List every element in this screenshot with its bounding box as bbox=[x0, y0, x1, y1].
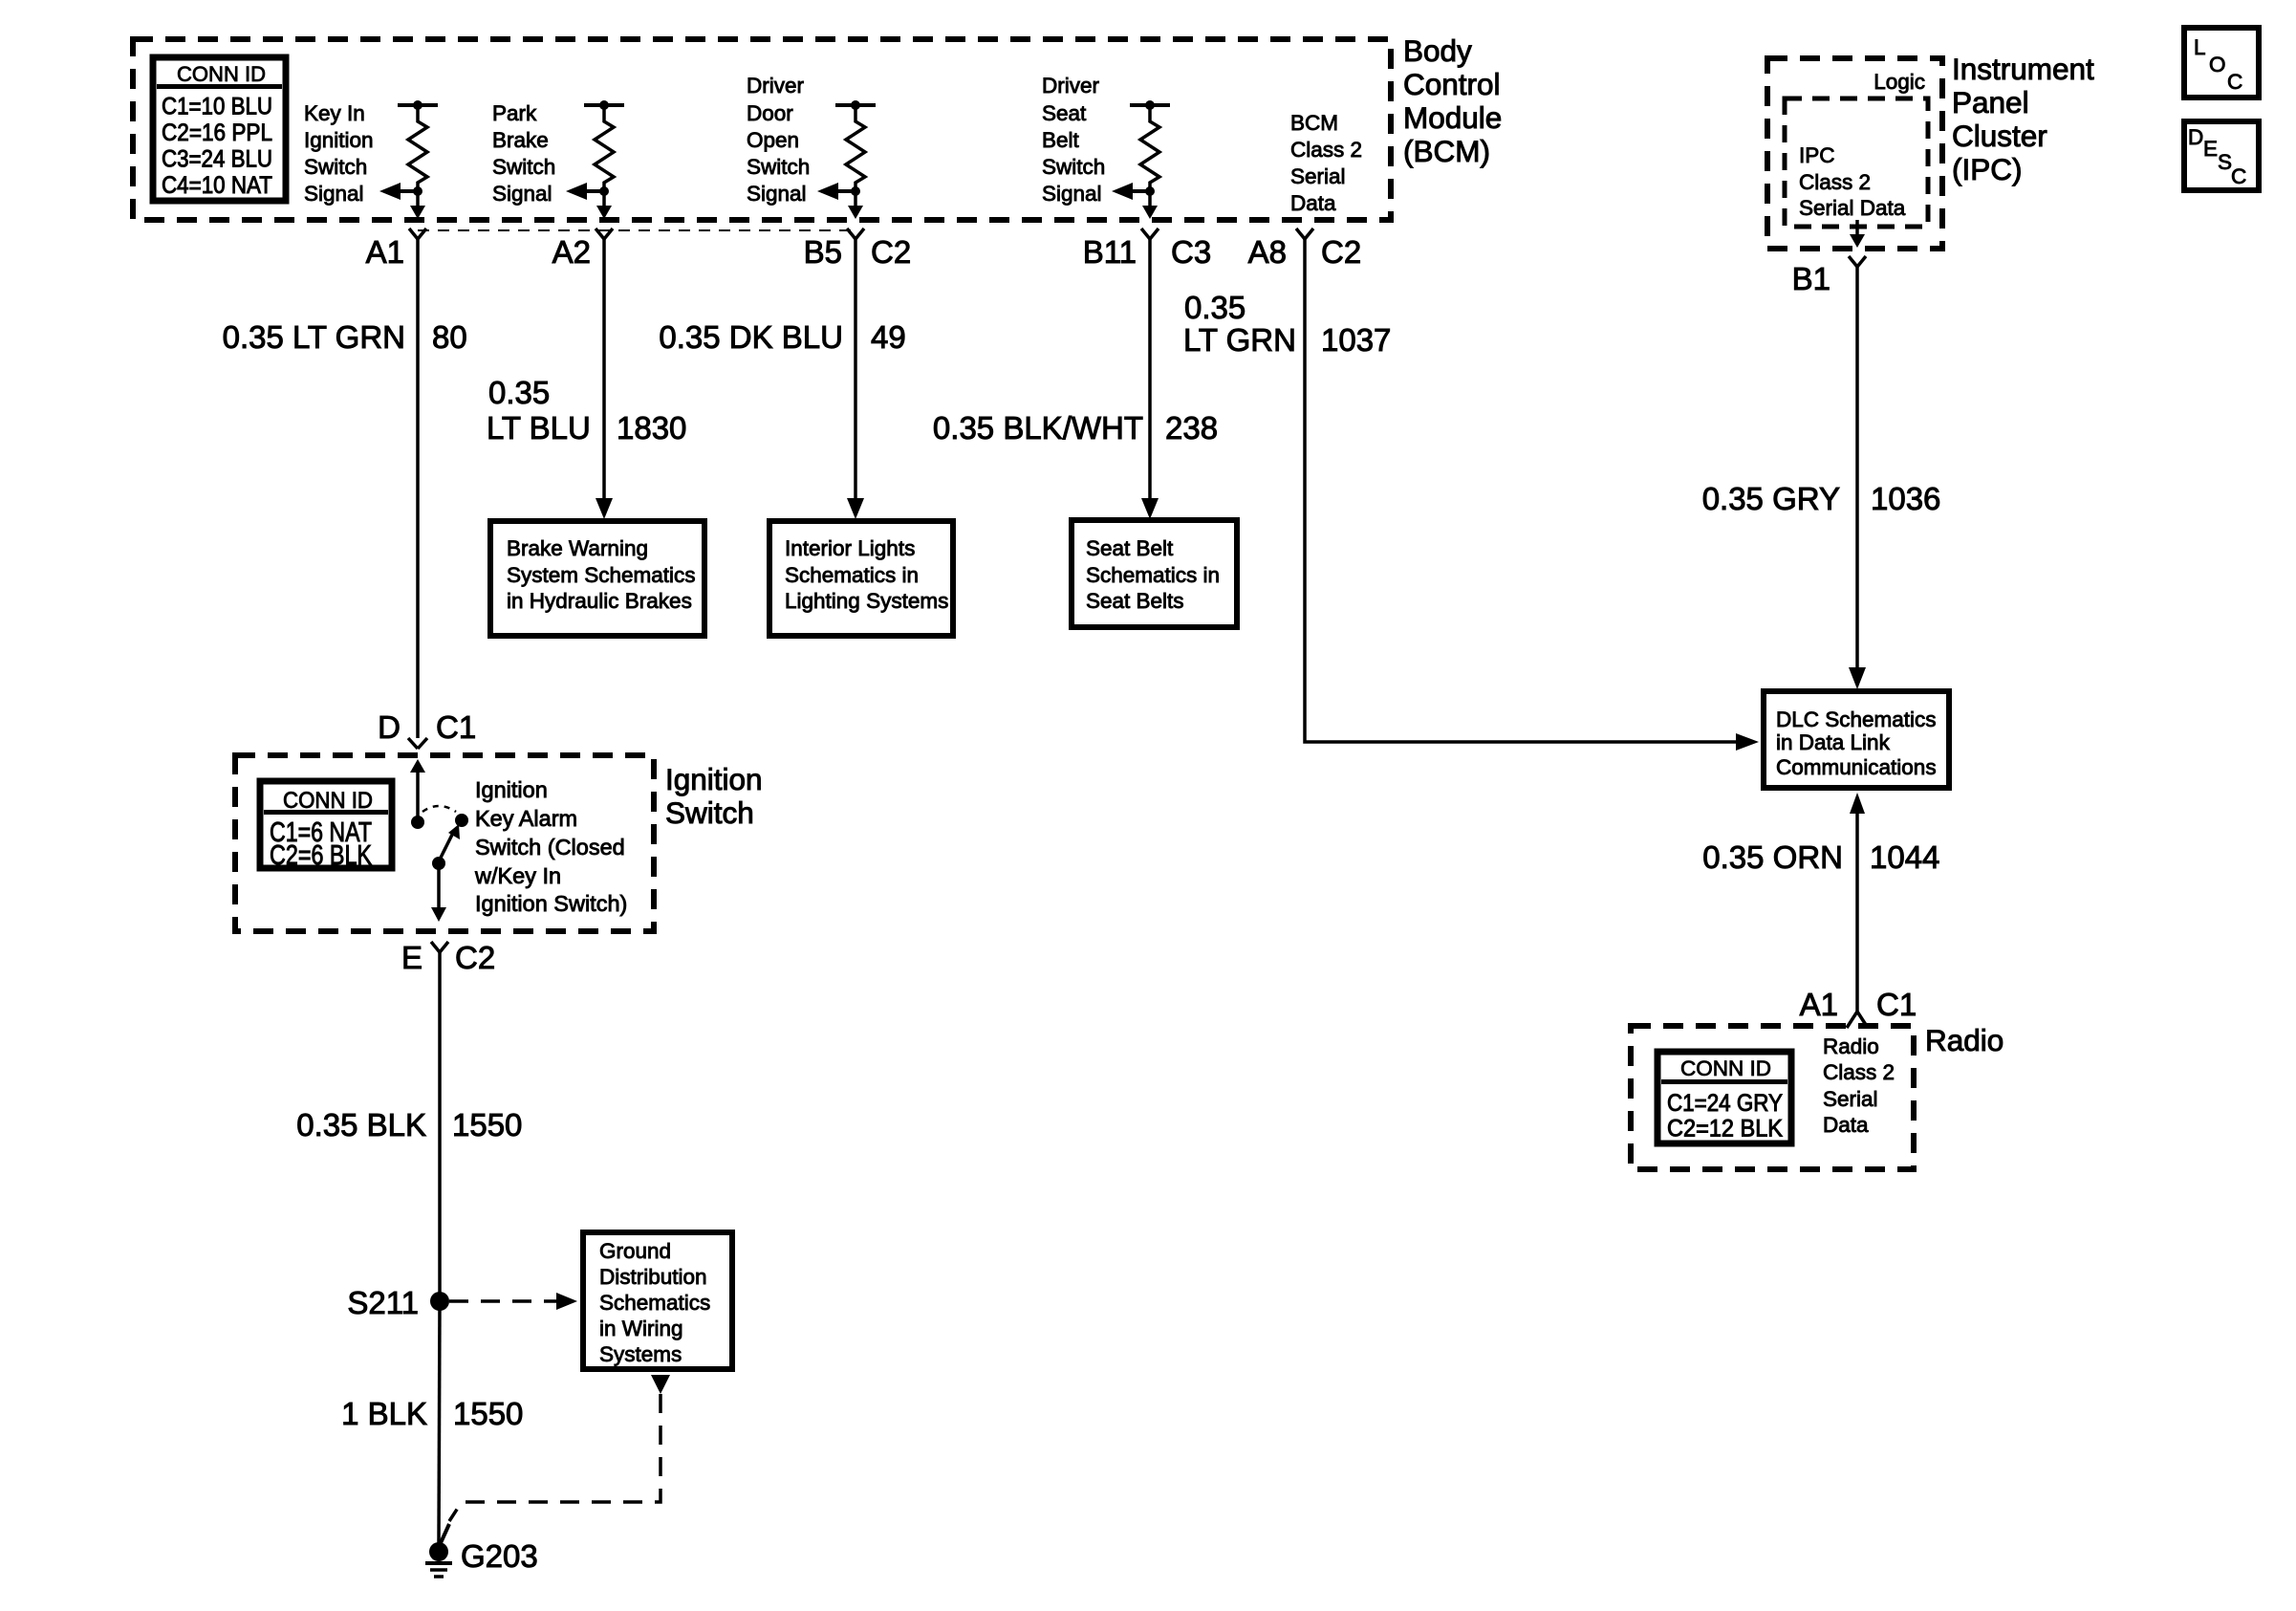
IPC Class 2 Serial Data label bbox=[1799, 143, 1906, 220]
svg-text:Park: Park bbox=[492, 101, 537, 125]
svg-text:CONN ID: CONN ID bbox=[1680, 1056, 1771, 1080]
connector A8 / C2 (BCM pin) bbox=[1248, 229, 1362, 270]
svg-text:Brake Warning: Brake Warning bbox=[507, 536, 648, 560]
wire label 0.35 BLK/WHT 238 bbox=[933, 410, 1218, 446]
svg-text:E: E bbox=[2203, 137, 2218, 161]
svg-text:A1: A1 bbox=[366, 234, 404, 270]
wire A2 to brake warning box bbox=[596, 239, 613, 519]
svg-text:Control: Control bbox=[1403, 67, 1501, 101]
svg-text:Lighting Systems: Lighting Systems bbox=[785, 589, 948, 613]
svg-text:Logic: Logic bbox=[1874, 70, 1925, 94]
svg-text:Systems: Systems bbox=[599, 1342, 682, 1366]
svg-text:Data: Data bbox=[1823, 1113, 1869, 1137]
svg-text:0.35: 0.35 bbox=[488, 375, 550, 410]
svg-text:Panel: Panel bbox=[1952, 85, 2029, 120]
svg-text:Belt: Belt bbox=[1042, 128, 1080, 152]
svg-text:CONN ID: CONN ID bbox=[283, 788, 373, 814]
resistor driver seat belt switch (BCM internal) bbox=[1112, 100, 1170, 219]
svg-text:L: L bbox=[2194, 35, 2206, 59]
svg-text:C2=6 BLK: C2=6 BLK bbox=[270, 840, 373, 871]
DLC Schematics reference box bbox=[1764, 691, 1949, 788]
dashed wire S211 to ground distribution box bbox=[449, 1293, 577, 1310]
svg-text:IPC: IPC bbox=[1799, 143, 1835, 167]
wire label 0.35 BLK 1550 bbox=[296, 1107, 522, 1143]
svg-text:Key In: Key In bbox=[304, 101, 365, 125]
svg-text:49: 49 bbox=[871, 319, 906, 355]
svg-text:1830: 1830 bbox=[617, 410, 686, 446]
svg-text:Class 2: Class 2 bbox=[1799, 170, 1871, 194]
svg-text:0.35 LT GRN: 0.35 LT GRN bbox=[223, 319, 405, 355]
svg-text:Communications: Communications bbox=[1776, 755, 1937, 779]
connector A1 (BCM pin) bbox=[366, 229, 426, 270]
svg-text:C1: C1 bbox=[436, 709, 476, 745]
svg-text:1550: 1550 bbox=[452, 1107, 522, 1143]
svg-text:LT GRN: LT GRN bbox=[1183, 322, 1296, 358]
svg-text:in Data Link: in Data Link bbox=[1776, 730, 1891, 754]
svg-text:C2=16 PPL: C2=16 PPL bbox=[162, 120, 272, 146]
Ground Distribution reference box bbox=[583, 1232, 732, 1369]
connector B11 / C3 (BCM pin) bbox=[1083, 229, 1211, 270]
wire A1 to ignition switch bbox=[416, 239, 420, 738]
resistor key-in ignition switch (BCM internal) bbox=[379, 100, 438, 219]
IPC internal arrow to B1 bbox=[1850, 220, 1865, 248]
svg-text:Schematics in: Schematics in bbox=[785, 563, 919, 587]
svg-text:(IPC): (IPC) bbox=[1952, 152, 2023, 186]
svg-text:Seat: Seat bbox=[1042, 101, 1087, 125]
svg-text:A1: A1 bbox=[1800, 987, 1838, 1022]
svg-text:C: C bbox=[2231, 164, 2246, 188]
wire label 0.35 LT GRN 80 bbox=[223, 319, 467, 355]
connector A2 (BCM pin) bbox=[552, 229, 613, 270]
svg-text:S: S bbox=[2218, 150, 2232, 174]
connector E / C2 (ignition switch pin) bbox=[401, 940, 495, 975]
svg-text:C2: C2 bbox=[1321, 234, 1361, 270]
svg-text:Interior Lights: Interior Lights bbox=[785, 536, 915, 560]
svg-text:E: E bbox=[401, 940, 422, 975]
svg-text:A8: A8 bbox=[1248, 234, 1287, 270]
svg-text:Cluster: Cluster bbox=[1952, 119, 2047, 153]
svg-text:0.35 GRY: 0.35 GRY bbox=[1702, 481, 1840, 516]
svg-text:DLC Schematics: DLC Schematics bbox=[1776, 708, 1937, 731]
svg-text:0.35 BLK/WHT: 0.35 BLK/WHT bbox=[933, 410, 1143, 446]
svg-text:C: C bbox=[2227, 70, 2242, 94]
svg-text:1550: 1550 bbox=[453, 1396, 523, 1431]
svg-text:Brake: Brake bbox=[492, 128, 549, 152]
svg-text:Switch: Switch bbox=[665, 795, 754, 830]
svg-text:Seat Belt: Seat Belt bbox=[1086, 536, 1174, 560]
svg-text:Signal: Signal bbox=[1042, 182, 1102, 206]
svg-text:238: 238 bbox=[1165, 410, 1218, 446]
svg-text:C1=10 BLU: C1=10 BLU bbox=[162, 94, 272, 120]
IPC title label bbox=[1952, 52, 2094, 186]
svg-text:Serial: Serial bbox=[1290, 164, 1346, 188]
wire radio to DLC schematics box bbox=[1850, 793, 1865, 1012]
svg-text:Schematics: Schematics bbox=[599, 1291, 710, 1315]
svg-text:Radio: Radio bbox=[1925, 1023, 2004, 1057]
svg-text:C3=24 BLU: C3=24 BLU bbox=[162, 146, 272, 173]
svg-text:Door: Door bbox=[747, 101, 793, 125]
splice S211 bbox=[347, 1285, 449, 1320]
BCM CONN ID table bbox=[153, 57, 286, 201]
wire B11 to seat belt box bbox=[1141, 239, 1159, 519]
wire B5 to interior lights box bbox=[847, 239, 864, 519]
wire E to S211 bbox=[438, 952, 442, 1301]
connector C2 dashed line under BCM bbox=[418, 229, 856, 231]
svg-text:C2: C2 bbox=[871, 234, 911, 270]
svg-text:D: D bbox=[378, 709, 401, 745]
svg-text:C2=12 BLK: C2=12 BLK bbox=[1667, 1116, 1783, 1143]
svg-text:Ignition Switch): Ignition Switch) bbox=[475, 891, 627, 916]
svg-text:Key Alarm: Key Alarm bbox=[475, 806, 577, 831]
svg-text:1036: 1036 bbox=[1871, 481, 1940, 516]
svg-text:Signal: Signal bbox=[304, 182, 364, 206]
svg-text:B5: B5 bbox=[804, 234, 842, 270]
wire label 0.35 LT BLU 1830 bbox=[487, 375, 686, 446]
BCM title label bbox=[1403, 33, 1502, 168]
svg-text:Ground: Ground bbox=[599, 1239, 671, 1263]
Brake Warning reference box bbox=[490, 521, 704, 636]
Driver Seat Belt Switch Signal label bbox=[1042, 74, 1105, 206]
svg-text:w/Key In: w/Key In bbox=[474, 863, 561, 888]
svg-text:Driver: Driver bbox=[747, 74, 805, 98]
LOC legend box bbox=[2184, 28, 2259, 98]
svg-text:0.35 DK BLU: 0.35 DK BLU bbox=[659, 319, 843, 355]
wire S211 to G203 bbox=[439, 1301, 440, 1543]
BCM module dashed box bbox=[133, 39, 1391, 220]
wire label 1 BLK 1550 bbox=[341, 1396, 523, 1431]
svg-text:Distribution: Distribution bbox=[599, 1265, 707, 1289]
wire label 0.35 GRY 1036 bbox=[1702, 481, 1941, 516]
svg-text:1044: 1044 bbox=[1870, 839, 1939, 875]
resistor driver door open switch (BCM internal) bbox=[817, 100, 876, 219]
svg-text:LT BLU: LT BLU bbox=[487, 410, 591, 446]
svg-text:Switch (Closed: Switch (Closed bbox=[475, 835, 625, 860]
wire label 0.35 DK BLU 49 bbox=[659, 319, 905, 355]
wire label 0.35 ORN 1044 bbox=[1702, 839, 1939, 875]
svg-text:80: 80 bbox=[432, 319, 467, 355]
svg-text:CONN ID: CONN ID bbox=[177, 62, 266, 86]
Radio Class 2 Serial Data label bbox=[1823, 1034, 1895, 1137]
connector A1 / C1 (radio pin) bbox=[1800, 987, 1917, 1028]
svg-text:0.35 BLK: 0.35 BLK bbox=[296, 1107, 426, 1143]
Key In Ignition Switch Signal label bbox=[304, 101, 374, 206]
svg-text:Switch: Switch bbox=[1042, 155, 1105, 179]
svg-text:Seat Belts: Seat Belts bbox=[1086, 589, 1184, 613]
svg-text:System Schematics: System Schematics bbox=[507, 563, 696, 587]
svg-text:Switch: Switch bbox=[492, 155, 555, 179]
svg-text:0.35: 0.35 bbox=[1184, 290, 1245, 325]
Park Brake Switch Signal label bbox=[492, 101, 555, 206]
svg-text:Serial Data: Serial Data bbox=[1799, 196, 1906, 220]
svg-text:Ignition: Ignition bbox=[304, 128, 374, 152]
svg-text:Signal: Signal bbox=[492, 182, 552, 206]
connector B1 (IPC pin) bbox=[1792, 256, 1866, 296]
svg-text:BCM: BCM bbox=[1290, 111, 1338, 135]
svg-text:Body: Body bbox=[1403, 33, 1472, 68]
svg-text:Switch: Switch bbox=[304, 155, 367, 179]
svg-text:C2: C2 bbox=[455, 940, 495, 975]
svg-text:Driver: Driver bbox=[1042, 74, 1100, 98]
connector D / C1 (ignition switch pin) bbox=[378, 709, 476, 749]
svg-text:Open: Open bbox=[747, 128, 799, 152]
svg-text:Schematics in: Schematics in bbox=[1086, 563, 1220, 587]
Ignition Switch title label bbox=[665, 762, 763, 830]
svg-text:Ignition: Ignition bbox=[665, 762, 763, 796]
dashed wire ground box to G203 bbox=[449, 1375, 670, 1521]
svg-text:B1: B1 bbox=[1792, 261, 1830, 296]
svg-text:O: O bbox=[2209, 53, 2226, 76]
svg-text:in Wiring: in Wiring bbox=[599, 1317, 683, 1340]
svg-text:Signal: Signal bbox=[747, 182, 807, 206]
ground G203 bbox=[425, 1524, 538, 1577]
svg-text:Class 2: Class 2 bbox=[1823, 1060, 1895, 1084]
Driver Door Open Switch Signal label bbox=[747, 74, 810, 206]
svg-text:B11: B11 bbox=[1083, 234, 1137, 270]
svg-text:A2: A2 bbox=[552, 234, 591, 270]
Radio dashed box bbox=[1631, 1026, 1914, 1169]
svg-text:C1=24 GRY: C1=24 GRY bbox=[1667, 1090, 1783, 1117]
ignition key alarm switch symbol bbox=[410, 759, 468, 922]
Seat Belt reference box bbox=[1072, 520, 1237, 627]
Radio CONN ID table bbox=[1657, 1052, 1791, 1143]
svg-text:1037: 1037 bbox=[1321, 322, 1391, 358]
svg-text:Serial: Serial bbox=[1823, 1087, 1878, 1111]
DESC legend box bbox=[2184, 121, 2259, 190]
svg-text:Module: Module bbox=[1403, 100, 1502, 135]
svg-text:Instrument: Instrument bbox=[1952, 52, 2094, 86]
wire A8 to DLC schematics box bbox=[1305, 239, 1759, 751]
svg-text:C3: C3 bbox=[1171, 234, 1211, 270]
svg-text:C4=10 NAT: C4=10 NAT bbox=[162, 172, 272, 199]
svg-text:Class 2: Class 2 bbox=[1290, 138, 1362, 162]
Ignition Switch dashed box bbox=[235, 755, 654, 931]
svg-text:Ignition: Ignition bbox=[475, 777, 548, 802]
wire B1 to DLC schematics box bbox=[1849, 267, 1866, 689]
BCM Class 2 Serial Data label bbox=[1290, 111, 1362, 215]
svg-text:G203: G203 bbox=[461, 1538, 538, 1574]
Instrument Panel Cluster dashed box bbox=[1767, 58, 1942, 249]
svg-text:1 BLK: 1 BLK bbox=[341, 1396, 427, 1431]
wire label 0.35 LT GRN 1037 bbox=[1183, 290, 1391, 358]
svg-text:0.35 ORN: 0.35 ORN bbox=[1702, 839, 1843, 875]
svg-text:Data: Data bbox=[1290, 191, 1336, 215]
Interior Lights reference box bbox=[769, 521, 953, 636]
connector B5 / C2 (BCM pin) bbox=[804, 229, 912, 270]
svg-text:Radio: Radio bbox=[1823, 1034, 1879, 1058]
resistor park brake switch (BCM internal) bbox=[566, 100, 624, 219]
svg-text:S211: S211 bbox=[347, 1285, 419, 1320]
ignition key alarm switch label bbox=[474, 777, 627, 916]
IPC logic dashed box bbox=[1785, 98, 1928, 227]
svg-text:(BCM): (BCM) bbox=[1403, 134, 1490, 168]
svg-text:C1: C1 bbox=[1876, 987, 1917, 1022]
Ignition CONN ID table bbox=[260, 781, 392, 871]
svg-text:in Hydraulic Brakes: in Hydraulic Brakes bbox=[507, 589, 692, 613]
svg-text:Switch: Switch bbox=[747, 155, 810, 179]
svg-text:D: D bbox=[2188, 125, 2203, 149]
